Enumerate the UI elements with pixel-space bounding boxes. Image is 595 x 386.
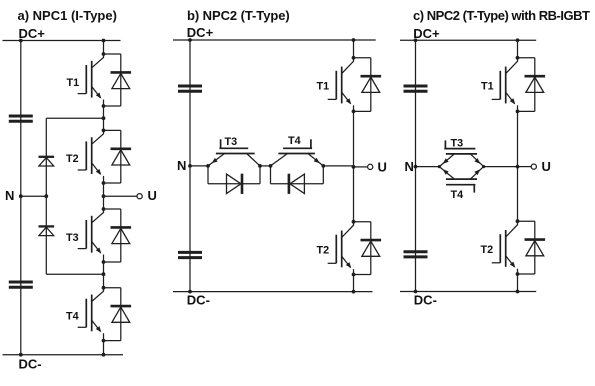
node dot bottom of T1 [102,104,106,108]
node dot RB left [438,165,441,168]
transistor T4 [278,153,315,155]
node dot top of T2 [102,129,106,133]
wire T4 to output (b) [323,165,353,167]
svg-text:T1: T1 [481,81,494,93]
wire T1-output (c) [517,111,519,221]
capacitor C1 (a) [9,115,33,118]
node A clamp junction [102,116,106,120]
wire left bus (c) [415,40,417,291]
transistor T4 (RB-IGBT) [446,178,477,180]
wire main branch top (b) [353,40,355,58]
wire output U (a) [104,195,138,197]
svg-text:T1: T1 [317,81,330,93]
node dot bottom of T2 [516,272,520,276]
transistor T2 [92,130,104,144]
node dot bottom of T2 [102,181,106,185]
node dot top of T2 [352,220,356,224]
transistor T2 [342,222,354,238]
node dot DC- bus (b) [188,290,192,294]
svg-text:T2: T2 [481,244,494,256]
freewheel diode of T1 [525,75,546,78]
diode branch wire of T1 [354,57,371,59]
antiparallel diode of T4 [288,174,291,194]
wire DC+ rail (b) [173,39,376,41]
node dot DC- branch (a) [102,353,106,357]
transistor T1 [92,54,104,68]
transistor T4 [92,288,104,302]
node dot top of T1 [102,52,106,56]
node dot DC- bus (c) [414,290,418,294]
wire main branch top (c) [517,40,519,58]
diode branch wire of T4 [104,287,121,289]
freewheel diode of T3 [111,226,132,229]
wire T2-output (a) [103,183,105,209]
freewheel diode of T2 [525,238,546,241]
capacitor C2 (b) [178,251,202,254]
svg-text:T2: T2 [66,153,79,165]
svg-text:U: U [378,160,387,175]
svg-text:c) NPC2 (T-Type) with RB-IGBT: c) NPC2 (T-Type) with RB-IGBT [413,8,590,23]
diode branch wire of T2 [104,129,121,131]
wire N to RB switch (c) [416,166,440,168]
svg-text:T4: T4 [288,135,301,147]
transistor T2 [506,221,518,237]
freewheel diode of T2 [111,148,132,151]
wire T3-T4 (a) [103,262,105,288]
transistor T1 [342,58,354,74]
terminal U (b) [368,164,373,169]
svg-text:DC-: DC- [19,357,42,372]
node dot T4 left [269,164,273,168]
node dot DC- branch (c) [516,290,520,294]
wire clamp vertical (a) [45,118,47,274]
wire T3-T4 (b) [260,165,271,167]
svg-text:DC-: DC- [414,293,437,308]
wire N to T3 (b) [190,165,208,167]
node dot top of T1 [352,56,356,60]
capacitor C2 (a) [9,281,33,284]
wire main branch bottom (c) [517,274,519,292]
node dot output (b) [352,165,356,169]
wire DC- rail (c) [400,291,536,293]
svg-text:T3: T3 [66,232,79,244]
node dot N bus (a) [19,194,23,198]
transistor T3 [92,209,104,223]
clamp diode D6 [39,225,55,227]
wire T1-output (b) [353,111,355,221]
wire main branch bottom (a) [103,341,105,355]
transistor T3 (RB-IGBT) [446,153,477,155]
svg-text:DC+: DC+ [187,25,214,40]
svg-text:U: U [148,188,157,203]
wire RB switch to output (c) [484,166,518,168]
svg-text:N: N [5,188,14,203]
wire output U (b) [354,166,368,168]
wire left bus (b) [189,40,191,292]
node dot top of T2 [516,219,520,223]
node dot DC+ bus (b) [188,38,192,42]
node dot top of T3 [102,207,106,211]
freewheel diode of T1 [361,75,382,78]
wire N (a) [21,195,47,197]
node dot output (a) [102,194,106,198]
svg-text:N: N [405,159,414,174]
node dot bottom of T1 [516,110,520,114]
wire left bus (a) [20,41,22,355]
node dot N (b) [188,164,192,168]
wire clamp lower (a) [46,273,103,275]
clamp diode D5 [39,156,55,158]
svg-text:T4: T4 [66,311,79,323]
svg-text:U: U [542,159,551,174]
freewheel diode of T1 [111,71,132,74]
node dot RB right [482,165,485,168]
wire loop of T3 [207,166,209,184]
node dot top of T1 [516,56,520,60]
node dot DC+ branch (c) [516,38,520,42]
capacitor C2 (c) [404,250,428,253]
terminal U (c) [531,164,536,169]
svg-text:T3: T3 [451,137,464,149]
svg-text:DC-: DC- [187,293,210,308]
node dot top of T4 [102,286,106,290]
wire DC- rail (b) [173,291,373,293]
wire DC- rail (a) [3,354,124,356]
transistor T3 [216,153,255,155]
node dot bottom of T4 [102,339,106,343]
freewheel diode of T2 [361,239,382,242]
wire main branch bottom (b) [353,275,355,292]
node dot T3 right [258,164,262,168]
svg-text:b) NPC2 (T-Type): b) NPC2 (T-Type) [187,8,290,23]
wire T1-T2 (a) [103,106,105,130]
node dot bottom of T3 [102,260,106,264]
svg-text:T2: T2 [317,245,330,257]
capacitor C1 (c) [404,85,428,88]
wire DC+ rail (c) [400,39,536,41]
wire output U (c) [518,166,532,168]
node dot DC+ branch (b) [352,38,356,42]
wire DC+ rail (a) [3,40,121,42]
node dot DC+ bus (a) [19,39,23,43]
svg-text:DC+: DC+ [413,26,440,41]
transistor T1 [506,58,518,74]
diode branch wire of T3 [104,208,121,210]
wire loop of T4 [270,166,272,184]
antiparallel diode of T3 [241,174,244,194]
node dot output (c) [516,165,520,169]
capacitor C1 (b) [178,85,202,88]
node dot bottom of T2 [352,273,356,277]
svg-text:T3: T3 [225,136,238,148]
diode branch wire of T2 [354,221,371,223]
node dot DC+ bus (c) [414,38,418,42]
terminal U (a) [137,194,142,199]
wire main branch top (a) [103,41,105,55]
node dot DC+ branch (a) [102,39,106,43]
node dot N clamp (a) [44,194,48,198]
svg-text:T1: T1 [67,77,80,89]
node B clamp junction [102,272,106,276]
diode branch wire of T1 [104,53,121,55]
svg-text:N: N [177,158,186,173]
diode branch wire of T2 [518,220,535,222]
svg-text:a) NPC1 (I-Type): a) NPC1 (I-Type) [18,8,117,23]
node dot DC- bus (a) [19,353,23,357]
node dot bottom of T1 [352,110,356,114]
node dot N (c) [414,165,418,169]
node dot T4 right [321,164,325,168]
node dot T3 left [206,164,210,168]
diode branch wire of T1 [518,57,535,59]
node dot DC- branch (b) [352,290,356,294]
svg-text:T4: T4 [451,189,464,201]
svg-text:DC+: DC+ [19,26,46,41]
wire clamp upper (a) [46,117,103,119]
freewheel diode of T4 [111,305,132,308]
